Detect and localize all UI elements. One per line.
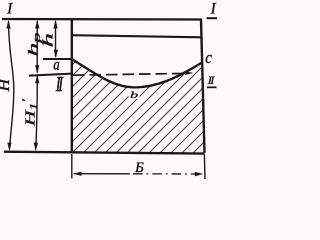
vessel right wall — [201, 19, 205, 153]
dimension B line — [74, 173, 130, 175]
bottom extension line left — [71, 154, 73, 179]
vessel bottom line — [4, 152, 205, 154]
vessel inner top line — [71, 35, 203, 37]
liquid surface curve a-b-c — [72, 59, 202, 87]
bottom extension line right — [203, 155, 206, 180]
svg-text:c: c — [205, 49, 212, 67]
svg-text:H: H — [0, 77, 13, 92]
dimension h line — [55, 21, 57, 57]
dimension H line (bowed) — [9, 22, 14, 149]
svg-text:a: a — [53, 56, 60, 73]
arrowhead at right end of dashed line — [185, 71, 193, 75]
dimension h_p line — [36, 21, 38, 73]
svg-text:I: I — [6, 1, 13, 18]
section line I-I (top) — [2, 18, 202, 21]
svg-text:I: I — [210, 1, 217, 18]
underline of right II — [207, 86, 217, 88]
svg-text:Б: Б — [134, 160, 144, 176]
level-II reference line (left) — [29, 74, 72, 76]
svg-text:b: b — [130, 89, 139, 100]
label b backing — [129, 89, 140, 100]
dimension H1 line (slight lean) — [36, 76, 37, 149]
underline of right I — [207, 17, 218, 19]
vessel left wall — [71, 19, 73, 153]
svg-text:h: h — [41, 32, 56, 47]
level-a reference line — [43, 58, 72, 60]
hatching of liquid area — [0, 44, 313, 156]
dashed level line II-II — [73, 73, 186, 75]
